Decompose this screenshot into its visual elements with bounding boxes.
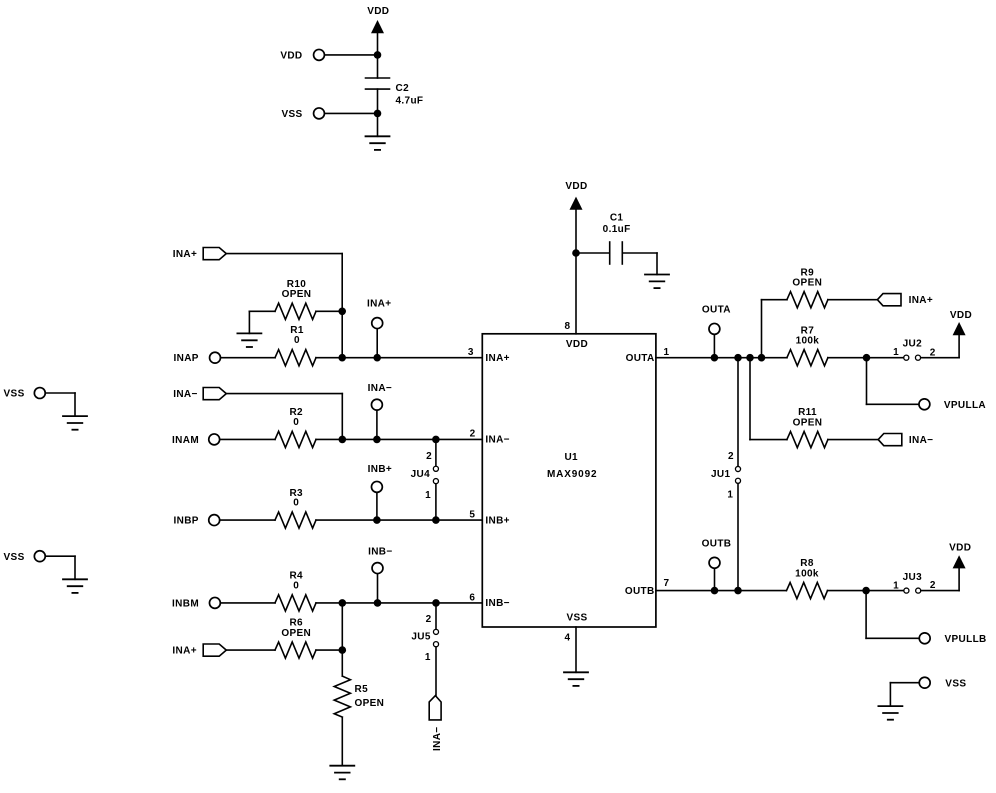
svg-text:OUTB: OUTB — [702, 539, 732, 550]
svg-text:100k: 100k — [795, 568, 819, 579]
svg-text:VSS: VSS — [281, 109, 302, 120]
svg-text:5: 5 — [469, 510, 475, 521]
svg-text:INA+: INA+ — [485, 353, 509, 364]
svg-text:INA+: INA+ — [172, 646, 196, 657]
svg-text:6: 6 — [469, 592, 475, 603]
svg-text:VDD: VDD — [949, 542, 971, 553]
svg-text:INA−: INA− — [173, 389, 197, 400]
svg-text:2: 2 — [728, 451, 734, 462]
svg-text:OUTA: OUTA — [626, 353, 655, 364]
svg-text:0: 0 — [293, 498, 299, 509]
svg-text:VSS: VSS — [566, 613, 587, 624]
svg-text:OPEN: OPEN — [792, 278, 822, 289]
svg-text:JU4: JU4 — [411, 469, 430, 480]
svg-text:INB+: INB+ — [485, 515, 509, 526]
svg-text:INA+: INA+ — [367, 298, 391, 309]
svg-text:7: 7 — [664, 578, 670, 589]
svg-text:OPEN: OPEN — [793, 417, 823, 428]
svg-text:0: 0 — [294, 335, 300, 346]
svg-text:2: 2 — [930, 580, 936, 591]
svg-text:JU1: JU1 — [711, 469, 730, 480]
svg-text:VDD: VDD — [367, 6, 389, 17]
svg-text:2: 2 — [930, 347, 936, 358]
svg-text:4.7uF: 4.7uF — [396, 96, 424, 107]
svg-text:INA−: INA− — [485, 435, 509, 446]
svg-text:INAP: INAP — [174, 353, 199, 364]
svg-text:INA−: INA− — [368, 383, 392, 394]
svg-text:INAM: INAM — [172, 435, 199, 446]
svg-text:OPEN: OPEN — [282, 289, 312, 300]
svg-text:INB+: INB+ — [368, 464, 392, 475]
svg-text:VSS: VSS — [4, 389, 25, 400]
svg-text:100k: 100k — [796, 335, 820, 346]
svg-text:1: 1 — [425, 490, 431, 501]
svg-text:VPULLA: VPULLA — [944, 400, 986, 411]
svg-text:INA−: INA− — [909, 435, 933, 446]
svg-text:INB−: INB− — [485, 598, 509, 609]
svg-text:INBP: INBP — [174, 516, 199, 527]
svg-text:INA−: INA− — [432, 727, 443, 751]
svg-text:INA+: INA+ — [173, 249, 197, 260]
svg-text:JU2: JU2 — [903, 339, 922, 350]
svg-text:C2: C2 — [396, 83, 410, 94]
svg-text:OUTA: OUTA — [702, 304, 731, 315]
svg-text:2: 2 — [426, 614, 432, 625]
svg-text:VDD: VDD — [566, 339, 588, 350]
svg-text:OPEN: OPEN — [281, 628, 311, 639]
svg-text:VDD: VDD — [565, 181, 587, 192]
svg-text:1: 1 — [425, 652, 431, 663]
svg-text:VSS: VSS — [945, 678, 966, 689]
svg-text:1: 1 — [893, 347, 899, 358]
svg-text:0.1uF: 0.1uF — [603, 224, 631, 235]
svg-text:INA+: INA+ — [909, 295, 933, 306]
svg-text:INB−: INB− — [368, 547, 392, 558]
svg-text:MAX9092: MAX9092 — [547, 469, 597, 480]
svg-text:0: 0 — [293, 580, 299, 591]
svg-text:2: 2 — [426, 451, 432, 462]
svg-text:OUTB: OUTB — [625, 586, 655, 597]
svg-text:1: 1 — [727, 490, 733, 501]
svg-text:2: 2 — [470, 429, 476, 440]
svg-text:3: 3 — [468, 347, 474, 358]
svg-text:1: 1 — [893, 580, 899, 591]
svg-text:VDD: VDD — [950, 310, 972, 321]
svg-text:VSS: VSS — [4, 552, 25, 563]
svg-text:JU5: JU5 — [411, 631, 430, 642]
svg-text:OPEN: OPEN — [355, 698, 385, 709]
svg-text:0: 0 — [293, 417, 299, 428]
svg-text:VDD: VDD — [280, 51, 302, 62]
svg-text:R5: R5 — [355, 684, 369, 695]
svg-text:U1: U1 — [564, 452, 578, 463]
svg-text:C1: C1 — [610, 212, 624, 223]
svg-text:8: 8 — [564, 321, 570, 332]
svg-text:JU3: JU3 — [903, 572, 922, 583]
svg-text:1: 1 — [664, 347, 670, 358]
svg-text:VPULLB: VPULLB — [945, 634, 987, 645]
svg-text:4: 4 — [564, 632, 570, 643]
svg-text:INBM: INBM — [172, 599, 199, 610]
